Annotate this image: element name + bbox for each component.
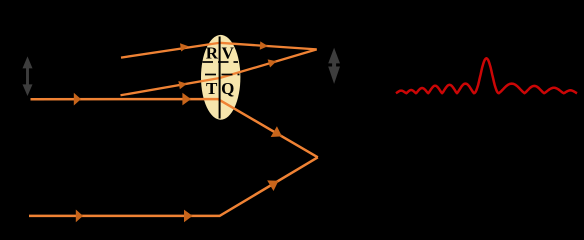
dashed divider row 1 [203, 61, 239, 63]
ray 2: lower scattered ray refracted to upper focus [121, 49, 317, 95]
arrowhead on upper scattered ray (left segment) [180, 42, 189, 51]
arrowhead on upper scattered ray (right segment) [260, 41, 269, 50]
arrowhead on lower scattered ray (left segment) [178, 80, 187, 90]
svg-text:Q: Q [221, 79, 234, 98]
arrowhead on rising reference beam toward lower focus [267, 175, 282, 191]
arrowhead on lower scattered ray (right segment) [268, 57, 278, 67]
lens dividing vertical line [219, 37, 221, 119]
arrowhead 2 on main axial beam [182, 93, 191, 106]
ray 4: bottom reference beam rising to lower focus [29, 157, 318, 216]
dashed divider row 2 [205, 74, 240, 76]
svg-text:R: R [206, 44, 219, 63]
svg-text:T: T [206, 79, 218, 98]
arrowhead 1 on main axial beam [74, 93, 81, 106]
arrowhead 2 on bottom reference beam [184, 210, 193, 223]
arrowhead on refracted main beam toward lower focus [271, 126, 285, 141]
ray 1: upper scattered ray refracted to upper focus [121, 43, 317, 58]
svg-text:V: V [222, 44, 235, 63]
red detector signal curve [396, 58, 577, 93]
lens / quadrant detector ellipse [201, 35, 240, 120]
ray 3: main axial beam refracted down to lower focus [31, 99, 318, 157]
gray double arrow right (oscillation at focus) [328, 48, 340, 84]
gray double arrow left (oscillation of source) [23, 56, 33, 96]
arrowhead 1 on bottom reference beam [76, 210, 83, 223]
